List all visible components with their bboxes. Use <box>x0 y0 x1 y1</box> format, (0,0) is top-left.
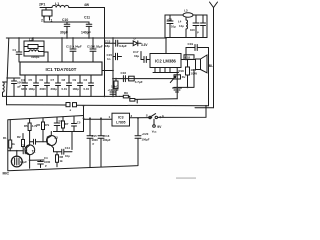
svg-text:100µF: 100µF <box>142 138 150 142</box>
wire T1 emitter <box>30 160 44 168</box>
coil L4 in box <box>186 17 188 37</box>
capacitor C9b <box>89 75 94 96</box>
svg-text:180p: 180p <box>73 87 80 91</box>
wire IC pin vertical x62 <box>61 38 63 62</box>
resistor R3 <box>187 60 189 88</box>
svg-text:L3: L3 <box>184 9 188 13</box>
svg-text:C8: C8 <box>62 78 66 82</box>
capacitor C12b top <box>54 117 60 131</box>
svg-text:C5: C5 <box>77 121 81 125</box>
battery 9V tap <box>153 119 155 124</box>
svg-text:100µF: 100µF <box>103 138 111 142</box>
svg-text:R6: R6 <box>37 123 41 127</box>
resistor R7 <box>54 117 64 132</box>
svg-text:C3: C3 <box>84 78 88 82</box>
left vertical wire <box>7 38 9 96</box>
capacitor interstage <box>30 139 48 144</box>
svg-text:C1: C1 <box>13 48 17 52</box>
svg-text:1n: 1n <box>107 57 111 61</box>
capacitor C14b coupling <box>54 148 73 154</box>
diode D1 <box>133 41 141 46</box>
capacitor C15 <box>87 119 93 167</box>
capacitor C7a in box <box>193 15 199 38</box>
resistor R6 <box>42 118 44 142</box>
microphone MIC <box>11 156 22 167</box>
svg-text:C13: C13 <box>105 39 111 43</box>
capacitor C18 box <box>184 55 194 60</box>
resistor step block R9 <box>123 95 128 98</box>
ground vertical x177 <box>176 73 178 99</box>
svg-text:IC2 LM386: IC2 LM386 <box>155 58 176 63</box>
pot wiper arrow <box>170 76 176 83</box>
resistor R8 <box>56 152 58 167</box>
svg-text:C3: C3 <box>59 119 63 123</box>
wire IC1 audio out <box>102 70 113 72</box>
svg-text:+1000µF: +1000µF <box>108 88 119 92</box>
capacitor C13 <box>90 38 96 62</box>
jack pin 1 lead <box>49 18 51 20</box>
svg-text:4.7µF: 4.7µF <box>135 80 143 84</box>
svg-text:100pF: 100pF <box>31 55 40 59</box>
svg-text:C19: C19 <box>188 42 194 46</box>
capacitor C8 <box>67 75 72 96</box>
wire step to ground rail right <box>135 98 177 101</box>
transistor T1 <box>25 145 35 155</box>
svg-text:C5: C5 <box>29 78 33 82</box>
svg-text:330p: 330p <box>51 87 58 91</box>
main top rail <box>6 37 166 39</box>
svg-text:2: 2 <box>41 19 43 23</box>
svg-text:14µ: 14µ <box>179 24 184 28</box>
svg-text:1: 1 <box>51 19 53 23</box>
resistor R7a to ground <box>115 79 117 97</box>
transmitter box outline <box>8 116 138 171</box>
svg-text:C12 0.04µF: C12 0.04µF <box>66 45 82 49</box>
svg-text:R18: R18 <box>179 69 185 73</box>
wire C14b riser <box>71 132 73 150</box>
svg-text:10µ: 10µ <box>134 54 139 58</box>
antenna <box>210 2 218 108</box>
svg-text:BL: BL <box>209 64 213 68</box>
capacitor C10 <box>64 22 70 38</box>
resistor R6a series <box>129 76 135 81</box>
wire mid vertical x104.5 <box>104 8 106 97</box>
short border line right <box>195 107 214 109</box>
svg-text:MIC: MIC <box>3 172 10 176</box>
svg-text:180p: 180p <box>29 87 36 91</box>
inductor L7 left coil <box>3 82 8 96</box>
speaker BL <box>196 59 201 70</box>
svg-text:L4: L4 <box>178 20 182 24</box>
svg-text:3300: 3300 <box>40 87 47 91</box>
svg-text:0.01: 0.01 <box>62 87 68 91</box>
wire tank top to rail <box>32 38 34 41</box>
svg-text:1k: 1k <box>60 159 64 163</box>
svg-text:4W: 4W <box>84 3 90 7</box>
wire to IC3 <box>84 118 113 120</box>
capacitor C12 <box>70 38 76 62</box>
svg-text:3300: 3300 <box>21 87 28 91</box>
inductor L1 coil <box>52 5 69 7</box>
svg-text:C11: C11 <box>84 16 90 20</box>
RF box top right <box>165 15 207 38</box>
coil L3 on box top <box>183 13 193 17</box>
capacitor C13b bottom <box>38 160 44 167</box>
inline component B on rail <box>73 103 77 107</box>
svg-text:+C20: +C20 <box>142 132 149 136</box>
resistor R5 <box>29 119 31 142</box>
svg-text:1/2W: 1/2W <box>191 72 198 76</box>
wire coil to right vertical <box>69 7 105 9</box>
wire to IC1 left pin <box>7 77 20 79</box>
svg-text:47k: 47k <box>45 123 50 127</box>
capacitor C17 mid <box>113 53 122 59</box>
svg-text:+C5: +C5 <box>167 18 173 22</box>
svg-text:30pF: 30pF <box>60 31 68 35</box>
svg-text:100: 100 <box>190 28 195 32</box>
capacitor C5 <box>34 75 39 96</box>
svg-text:10p: 10p <box>65 154 70 158</box>
svg-text:T2: T2 <box>54 136 58 140</box>
transistor T2 <box>47 136 57 146</box>
scan smudge mark <box>176 177 196 179</box>
wire box corner to rail <box>83 106 85 132</box>
wire right branch vertical <box>208 48 210 106</box>
svg-text:R7: R7 <box>65 122 69 126</box>
svg-text:p: p <box>197 30 199 34</box>
capacitor C11 <box>86 22 92 38</box>
wire IC3 out <box>130 117 152 119</box>
capacitor C16 coupling <box>123 76 125 82</box>
svg-text:R1: R1 <box>3 136 7 140</box>
capacitor C19 <box>186 45 209 60</box>
resistor R1 bias <box>9 120 11 151</box>
svg-text:10µ: 10µ <box>171 25 176 29</box>
svg-text:9V: 9V <box>157 125 162 129</box>
long lower rail <box>7 105 209 106</box>
svg-text:S: S <box>146 114 148 118</box>
wire audio to pot <box>113 78 174 80</box>
svg-text:Rv: Rv <box>182 75 186 79</box>
svg-text:2P1: 2P1 <box>39 3 45 7</box>
wire mic input <box>8 151 23 157</box>
svg-text:IC1 TDA7010T: IC1 TDA7010T <box>46 67 77 72</box>
jack P1 box <box>42 10 52 16</box>
svg-text:C14: C14 <box>65 146 71 150</box>
capacitor C11b input <box>23 148 26 154</box>
op-amp IC1 box <box>20 62 102 75</box>
capacitor C left of IC2 <box>141 52 150 63</box>
svg-text:C16: C16 <box>121 71 127 75</box>
capacitor C20 <box>135 118 141 139</box>
capacitor C1 left pin <box>16 38 22 62</box>
wire left edge link <box>6 96 8 104</box>
ground hatch pot <box>173 88 182 92</box>
capacitor C4 <box>23 75 28 96</box>
wire antenna input <box>40 7 52 9</box>
op-amp IC2 box <box>150 54 181 68</box>
jack pin 2 lead <box>43 18 45 22</box>
svg-text:1k: 1k <box>12 142 16 146</box>
svg-text:10µF: 10µF <box>20 160 27 164</box>
svg-text:140pF: 140pF <box>81 31 91 35</box>
svg-text:C4: C4 <box>21 78 25 82</box>
svg-text:C13 0.02µF: C13 0.02µF <box>87 45 103 49</box>
svg-text:R5: R5 <box>24 124 28 128</box>
wire tank to IC pin <box>44 52 48 62</box>
svg-text:T1: T1 <box>32 150 36 154</box>
svg-text:R2: R2 <box>17 135 21 139</box>
svg-text:Vcc: Vcc <box>152 129 157 133</box>
wire IC2 top pin <box>165 38 167 54</box>
svg-text:p: p <box>45 164 47 168</box>
svg-text:L2: L2 <box>29 38 33 42</box>
capacitor C5b top <box>72 117 77 132</box>
svg-text:L1: L1 <box>55 2 59 6</box>
capacitor C2 row first <box>12 78 17 96</box>
pot RP <box>174 75 181 79</box>
capacitor C14 mid <box>105 40 134 46</box>
jack stub from wire <box>45 8 47 11</box>
svg-text:C9: C9 <box>73 78 77 82</box>
svg-text:L7805: L7805 <box>116 121 126 125</box>
coil L2 in tank <box>24 50 44 52</box>
capacitor C16b <box>98 119 104 167</box>
resistor R2b <box>22 134 24 148</box>
capacitor C9 <box>78 75 83 96</box>
resistor R1 in tank <box>24 46 44 48</box>
svg-text:0.04: 0.04 <box>84 87 90 91</box>
wire mid vertical x113 <box>112 38 114 96</box>
svg-text:R9: R9 <box>124 91 128 95</box>
capacitor C1000uF filter <box>110 92 116 94</box>
tank sub-box <box>24 41 44 56</box>
svg-text:C7: C7 <box>51 78 55 82</box>
svg-text:IC3: IC3 <box>118 115 124 119</box>
inline component A on rail <box>66 103 70 107</box>
capacitor C7 <box>56 75 61 96</box>
wire output ground return <box>174 70 194 88</box>
wire switch to right edge <box>158 106 207 118</box>
switch S2 <box>149 116 151 118</box>
svg-text:C6: C6 <box>40 78 44 82</box>
svg-text:18p: 18p <box>105 44 110 48</box>
regulator IC3 box <box>112 113 130 126</box>
wire T2 collector rail <box>54 131 84 133</box>
svg-text:3.3V: 3.3V <box>141 43 148 47</box>
svg-text:p: p <box>93 142 95 146</box>
wire rail y22 <box>44 21 89 23</box>
wire IC2 out <box>181 59 196 61</box>
svg-text:3.3µF: 3.3µF <box>119 44 127 48</box>
svg-text:10kΩ: 10kΩ <box>111 85 119 89</box>
svg-text:C1: C1 <box>21 144 25 148</box>
capacitor C8a in box <box>201 15 206 38</box>
capacitor C5a in box <box>167 15 173 38</box>
ground rail receiver <box>7 95 120 97</box>
IC2 bottom pins <box>153 68 179 73</box>
svg-text:C10: C10 <box>62 18 68 22</box>
svg-text:C18: C18 <box>185 55 191 59</box>
capacitor C6 <box>45 75 50 96</box>
